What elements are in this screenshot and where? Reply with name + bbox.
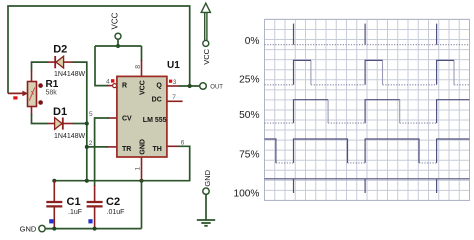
junction TR netA [85, 145, 89, 149]
diode D1 [55, 118, 63, 130]
graph border [265, 19, 470, 200]
wire D1 cathode stub [63, 123, 73, 125]
wire pin6 TH loop [167, 145, 179, 147]
svg-text:1N4148W: 1N4148W [54, 71, 86, 78]
waveform 25% duty trace [265, 60, 470, 84]
junction C2 gnd [93, 227, 97, 231]
junction C1 top [52, 179, 56, 183]
svg-text:1N4148W: 1N4148W [54, 133, 86, 140]
wire pot top to D2 [31, 70, 33, 82]
svg-text:58k: 58k [46, 90, 58, 97]
waveform 75% duty trace [265, 139, 470, 163]
svg-text:100%: 100% [233, 189, 259, 200]
svg-text:GND: GND [139, 139, 146, 155]
wire VCC horizontal [95, 45, 142, 47]
svg-text:TH: TH [152, 146, 161, 153]
wire VCC to pin4 [95, 46, 108, 86]
waveform 50% duty trace [265, 100, 470, 123]
wire top rail OUT feedback [8, 6, 190, 93]
junction VCC [116, 44, 120, 48]
waveform 100% duty trace [265, 179, 470, 193]
graph grid [265, 19, 470, 200]
svg-text:5: 5 [89, 111, 93, 118]
wire GND right down [205, 194, 207, 219]
svg-text:3: 3 [173, 79, 177, 86]
svg-text:GND: GND [203, 169, 212, 186]
terminal GND right [203, 188, 209, 194]
wire D1 anode stub [47, 123, 55, 125]
red dot pot top [38, 83, 43, 88]
wire ground rail [45, 228, 141, 230]
capacitor C2 [87, 202, 103, 229]
svg-text:8: 8 [135, 65, 142, 69]
terminal VCC mid [115, 33, 121, 39]
svg-text:TR: TR [122, 146, 131, 153]
blue marker square C2 [88, 219, 92, 223]
ground symbol [197, 220, 215, 226]
potentiometer R1 inner mark [29, 88, 35, 101]
svg-text:CV: CV [122, 116, 132, 123]
wire wiper feed [8, 92, 23, 94]
svg-text:50%: 50% [239, 110, 259, 121]
diode D2 [55, 56, 63, 68]
wire net A vertical [73, 62, 87, 181]
junction OUT [188, 84, 192, 88]
svg-text:C1: C1 [67, 196, 81, 208]
svg-text:R1: R1 [46, 79, 59, 90]
svg-text:7: 7 [172, 94, 176, 101]
wire pin3 Q to OUT [167, 85, 179, 87]
svg-text:1: 1 [135, 167, 142, 171]
red marker square wiper [13, 96, 17, 99]
wire pin5 CV net B [108, 117, 117, 119]
svg-text:4: 4 [106, 79, 110, 86]
wire D2 anode stub [64, 61, 73, 63]
svg-text:VCC: VCC [139, 80, 146, 95]
blue marker square C1 [49, 219, 53, 223]
svg-text:GND: GND [20, 225, 37, 234]
waveform 0% duty trace [265, 24, 470, 45]
junction C1 gnd [52, 227, 56, 231]
junction netA bottom [85, 179, 89, 183]
wire pin2 TR [87, 146, 108, 148]
capacitor C1 [46, 181, 62, 229]
wire VCC to junction [117, 39, 119, 46]
svg-text:VCC: VCC [110, 12, 119, 29]
svg-text:R: R [122, 83, 127, 90]
svg-text:Q: Q [156, 83, 162, 90]
pin4 reset bubble [113, 84, 117, 88]
red dot pot bottom [38, 100, 43, 105]
red marker square pin4 [111, 79, 114, 82]
potentiometer R1 body [28, 82, 37, 107]
junction pin1 [140, 179, 144, 183]
wire pot bottom to D1 [31, 107, 33, 116]
svg-text:C2: C2 [106, 196, 120, 208]
svg-text:2: 2 [89, 140, 93, 147]
wire C1 branch horizontal [54, 180, 190, 182]
IC U1 LM555 body [117, 76, 167, 157]
svg-text:D1: D1 [53, 106, 67, 118]
terminal GND left [39, 225, 45, 231]
terminal OUT [200, 83, 207, 90]
wire D2 cathode stub [47, 61, 55, 63]
svg-text:D2: D2 [53, 44, 67, 56]
svg-text:DC: DC [152, 96, 162, 103]
wire pin1 GND down [141, 157, 143, 181]
pot wiper arrowhead [22, 91, 28, 97]
wire VCC to pin8 [141, 46, 143, 61]
svg-text:U1: U1 [167, 60, 180, 71]
red marker square pin3 [169, 80, 172, 83]
svg-text:6: 6 [181, 139, 185, 146]
svg-text:OUT: OUT [210, 84, 223, 90]
wire pin7 DC stub [167, 100, 183, 102]
svg-text:75%: 75% [239, 149, 259, 160]
svg-text:.01uF: .01uF [107, 209, 125, 216]
svg-text:.1uF: .1uF [68, 209, 82, 216]
junction D1 netA [85, 122, 89, 126]
svg-text:VCC: VCC [202, 48, 211, 64]
svg-text:0%: 0% [245, 36, 260, 47]
svg-text:LM 555: LM 555 [143, 117, 167, 124]
power symbol VCC top right [201, 3, 210, 46]
svg-text:25%: 25% [239, 75, 259, 86]
